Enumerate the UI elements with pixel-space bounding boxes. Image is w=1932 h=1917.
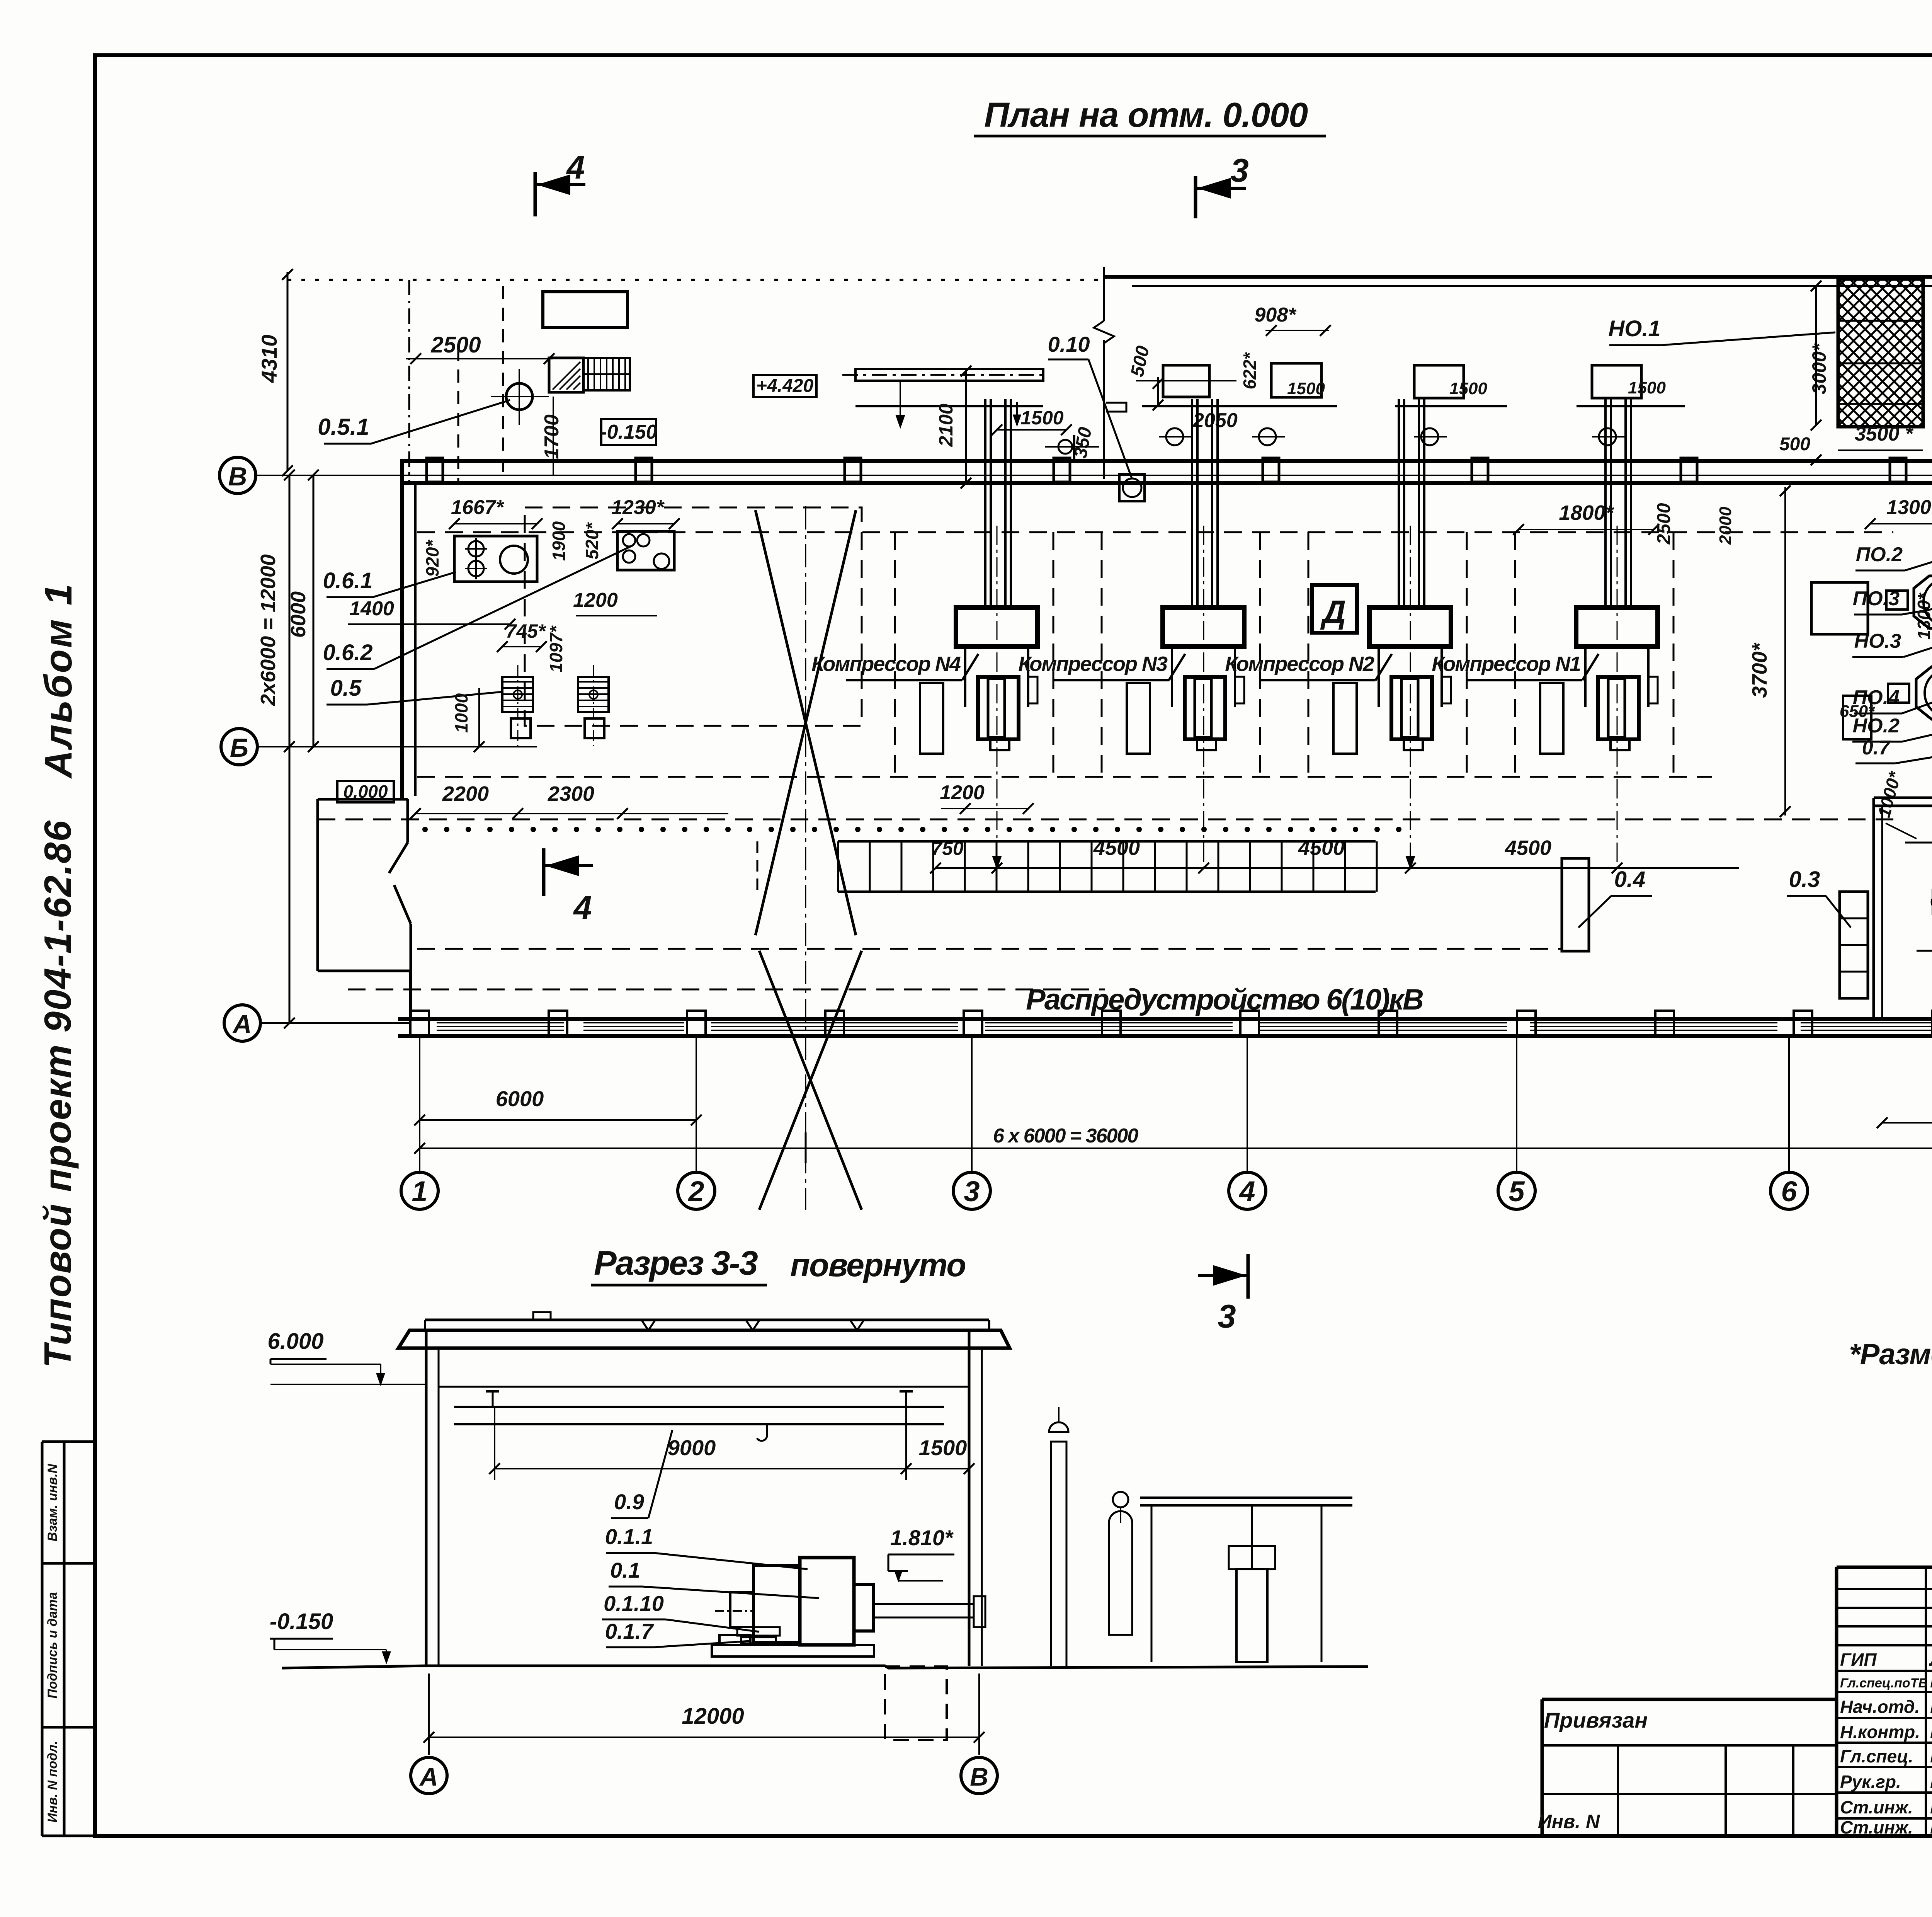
compressor unit N2: [1333, 399, 1451, 868]
dim 1900 vertical: [549, 521, 569, 561]
cooler NO.1 hatched: [1687, 279, 1932, 427]
svg-text:Гл.спец.поТБ: Гл.спец.поТБ: [1840, 1676, 1928, 1691]
svg-text:1500: 1500: [1020, 407, 1063, 429]
compressor unit N3: [1127, 399, 1244, 868]
axis line row A: [260, 1022, 410, 1024]
equipment 0.6.2 valves: [617, 531, 674, 570]
svg-text:Компрессор N2: Компрессор N2: [1225, 652, 1374, 676]
svg-text:Колупахин: Колупахин: [1930, 1670, 1932, 1692]
axis circle 6: [1770, 1036, 1808, 1209]
svg-text:6000: 6000: [496, 1086, 544, 1111]
svg-text:2300: 2300: [548, 782, 594, 805]
left margin stamp table: [42, 1442, 97, 1836]
label Компрессор N1: [1432, 652, 1599, 680]
svg-text:Новицкая: Новицкая: [1930, 1720, 1932, 1743]
dim 2000 vertical: [1716, 507, 1735, 545]
label Компрессор N4: [811, 652, 978, 680]
section 3-3 walls: [426, 1331, 982, 1666]
dashed bays around compressors: [318, 532, 1893, 819]
left margin label Typical project 904-1-62.86: [36, 820, 79, 1368]
svg-text:1900: 1900: [549, 521, 569, 561]
label PO.3: [1853, 587, 1932, 615]
vestibule box top-left: [543, 292, 628, 328]
switchgear cell row: [838, 841, 1377, 892]
plan lower-left annex: [318, 799, 411, 1019]
label 0.5: [327, 676, 502, 705]
svg-text:4: 4: [573, 890, 592, 926]
svg-text:1500: 1500: [1628, 378, 1666, 397]
toilet bowl: [1932, 890, 1932, 914]
section cut mark 3 bottom: [1198, 1254, 1248, 1335]
annex unit 2 (fan): [1136, 365, 1287, 445]
pinned box: [1538, 1708, 1837, 1836]
plan annex top wall (dotted part): [287, 279, 1105, 281]
svg-text:0.1.1: 0.1.1: [605, 1524, 653, 1549]
svg-text:Типовой проект 904-1-62.86: Типовой проект 904-1-62.86: [36, 820, 79, 1368]
svg-text:0.1: 0.1: [610, 1558, 640, 1582]
equipment 0.6.1 pumps: [454, 536, 537, 582]
axis line row B: [257, 746, 537, 747]
section 3-3 axis circle A: [411, 1757, 447, 1794]
svg-text:Ст.инж.: Ст.инж.: [1840, 1797, 1913, 1817]
label 0.6.1: [323, 568, 456, 597]
compressor unit N1: [1540, 399, 1658, 868]
plan annex top wall (solid part): [1105, 277, 1932, 286]
svg-text:2: 2: [687, 1175, 704, 1207]
svg-text:4500: 4500: [1298, 836, 1345, 860]
section cut mark 3 top: [1196, 152, 1249, 218]
left margin label Album 1: [37, 582, 80, 779]
svg-text:Ст.инж.: Ст.инж.: [1840, 1817, 1913, 1837]
dim 1097* vertical: [546, 625, 566, 672]
svg-text:3700*: 3700*: [1748, 642, 1771, 698]
note: dimensions for reference: [1849, 1338, 1932, 1371]
svg-text:0.5: 0.5: [330, 676, 362, 701]
section 3-3 labels 0.9 0.1.1 0.1 0.1.10 0.1.7: [602, 1430, 819, 1647]
dim 3700* vertical: [1748, 485, 1791, 817]
svg-text:4500: 4500: [1505, 836, 1551, 860]
dim 1000 vertical: [451, 688, 485, 752]
svg-text:3500 *: 3500 *: [1855, 423, 1914, 445]
svg-text:1500: 1500: [1449, 379, 1487, 398]
dim 1400: [348, 598, 515, 630]
boxed level +4.420: [753, 375, 816, 397]
partition details: [1886, 823, 1932, 951]
svg-text:В: В: [228, 462, 247, 491]
svg-text:745*: 745*: [506, 620, 546, 642]
svg-text:1300: 1300: [1886, 496, 1931, 519]
bottom dimension 6x6000=36000: [414, 1125, 1932, 1154]
svg-text:0.5.1: 0.5.1: [318, 414, 369, 440]
dim 2500: [406, 332, 554, 364]
svg-text:1667*: 1667*: [451, 496, 505, 519]
level -0.150: [270, 1609, 390, 1663]
section 3-3 ground line: [282, 1666, 1368, 1668]
section 3-3 level 6.000: [267, 1329, 425, 1384]
dim 350 vertical annex: [1070, 426, 1096, 460]
annex unit 3: [1225, 304, 1337, 445]
svg-text:Нач.отд.: Нач.отд.: [1840, 1697, 1920, 1717]
label Компрессор N3: [1018, 652, 1185, 680]
svg-text:*Размеры для справок.: *Размеры для справок.: [1849, 1338, 1932, 1371]
svg-text:1.810*: 1.810*: [890, 1525, 954, 1550]
svg-text:1230*: 1230*: [611, 496, 665, 519]
svg-text:9000: 9000: [668, 1435, 716, 1460]
svg-text:3000*: 3000*: [1808, 343, 1830, 394]
title Plan at elev. 0.000: [974, 96, 1326, 136]
label NO.3: [1852, 603, 1932, 657]
dashed hall lines lower: [348, 841, 1561, 1163]
svg-text:Привязан: Привязан: [1544, 1708, 1648, 1732]
section cut mark 4 bottom: [544, 848, 593, 926]
svg-text:5: 5: [1509, 1175, 1525, 1207]
signature table: [1837, 1567, 1932, 1838]
svg-text:0.4: 0.4: [1614, 867, 1646, 892]
bottom dimension 6000: [414, 1086, 702, 1125]
dim 2100 vertical: [935, 366, 971, 489]
section 3-3 roof: [398, 1312, 1010, 1348]
svg-text:4500: 4500: [1093, 836, 1140, 860]
label 0.5.1 with leader: [318, 400, 510, 444]
svg-text:0.1.7: 0.1.7: [605, 1619, 654, 1643]
svg-text:0.9: 0.9: [614, 1490, 644, 1514]
annex unit 4: [1395, 365, 1507, 445]
svg-text:1500: 1500: [1287, 379, 1325, 398]
svg-text:520*: 520*: [582, 522, 602, 560]
dim 1800*: [1513, 501, 1659, 535]
svg-text:Рук.гр.: Рук.гр.: [1840, 1772, 1901, 1792]
svg-text:А: А: [232, 1010, 252, 1039]
dim line 2200 2300: [410, 782, 728, 819]
svg-text:6: 6: [1781, 1175, 1797, 1207]
svg-text:0.6.1: 0.6.1: [323, 568, 373, 593]
svg-text:2500: 2500: [430, 332, 481, 358]
tank 650: [1840, 696, 1875, 739]
section 3-3 ceiling beam: [439, 1387, 969, 1441]
pump NO.3 hexagon: [1886, 557, 1932, 649]
svg-text:1: 1: [412, 1175, 427, 1207]
svg-text:А: А: [419, 1762, 438, 1791]
dim 1200: [573, 589, 657, 616]
section 3-3 axis circle V: [961, 1757, 997, 1794]
section 3-3 compressor: [712, 1558, 985, 1657]
svg-text:Д: Д: [1320, 594, 1346, 630]
annex unit 5: [1577, 365, 1685, 445]
dim 1500 annex 1: [992, 402, 1072, 435]
svg-text:6.000: 6.000: [267, 1329, 323, 1354]
dim 2x6000=12000 vertical: [257, 470, 295, 1028]
dim 4310 vertical: [257, 269, 293, 476]
floor drain circle 0.5.1: [491, 369, 549, 425]
svg-text:Коган: Коган: [1930, 1695, 1932, 1718]
axis circle 1: [401, 1036, 438, 1209]
svg-text:920*: 920*: [422, 540, 442, 577]
section cut mark 4 top: [535, 149, 585, 216]
plan annex left dashed wall: [409, 280, 503, 483]
foundation dashed: [885, 1667, 947, 1740]
dim row 1200 750 4500: [930, 781, 1739, 873]
svg-text:-0.150: -0.150: [600, 421, 657, 443]
svg-text:Шась: Шась: [1930, 1816, 1932, 1838]
svg-text:12000: 12000: [682, 1704, 744, 1729]
label 0.4 with equipment: [1562, 858, 1652, 951]
svg-text:Компрессор N3: Компрессор N3: [1018, 652, 1168, 676]
label PO.2: [1855, 543, 1932, 570]
wall row V: [400, 461, 1932, 483]
dim 500: [1777, 434, 1839, 465]
dim 745*: [497, 620, 547, 652]
svg-text:4310: 4310: [257, 335, 281, 383]
svg-text:-0.150: -0.150: [270, 1609, 333, 1634]
svg-text:2200: 2200: [442, 782, 489, 805]
svg-text:Инв. N: Инв. N: [1538, 1811, 1600, 1832]
section 3-3 dim 9000 1500: [489, 1407, 975, 1480]
dim 3500*: [1838, 423, 1923, 450]
svg-text:6 х 6000 = 36000: 6 х 6000 = 36000: [993, 1125, 1138, 1147]
svg-text:1200: 1200: [940, 781, 985, 804]
title Section 3-3 rotated: [591, 1244, 966, 1285]
svg-text:2050: 2050: [1192, 409, 1238, 432]
label NO.2: [1852, 707, 1932, 742]
svg-text:1500: 1500: [919, 1435, 967, 1460]
svg-text:0.000: 0.000: [343, 781, 388, 802]
level 1.810*: [888, 1525, 954, 1581]
sanitary rooms walls: [1874, 798, 1932, 1019]
svg-text:908*: 908*: [1255, 304, 1297, 326]
svg-text:1400: 1400: [349, 598, 394, 620]
svg-text:ПО.2: ПО.2: [1856, 543, 1903, 566]
axis circle 2: [678, 1036, 715, 1209]
svg-text:0.3: 0.3: [1789, 867, 1820, 892]
dim 6000 vertical left: [287, 470, 319, 752]
section 3-3 outdoor apparatus: [1049, 1407, 1352, 1666]
svg-text:Григорьян: Григорьян: [1930, 1770, 1932, 1793]
dim 2050: [1192, 409, 1238, 432]
dims 1300 1400 row: [1865, 496, 1932, 634]
dim 500 vertical annex: [1127, 344, 1163, 410]
svg-text:0.10: 0.10: [1048, 332, 1090, 356]
svg-text:Подпись и дата: Подпись и дата: [45, 1592, 60, 1699]
pump unit 0.5 left: [502, 665, 533, 746]
dotted boundary of switchgear area: [422, 827, 1401, 832]
label PO.4: [1853, 686, 1932, 713]
section 3-3 dim 12000: [423, 1674, 985, 1755]
svg-text:Инв. N подл.: Инв. N подл.: [45, 1741, 60, 1823]
svg-text:1200: 1200: [573, 589, 618, 611]
dim 520* vertical: [582, 522, 602, 560]
platform bracket: [1106, 403, 1126, 412]
svg-text:1000: 1000: [451, 693, 471, 733]
svg-text:Б: Б: [230, 733, 248, 763]
svg-text:Гл.спец.: Гл.спец.: [1840, 1746, 1913, 1766]
svg-text:622*: 622*: [1240, 352, 1260, 390]
svg-text:1700: 1700: [541, 414, 563, 459]
svg-text:3: 3: [964, 1175, 980, 1207]
tank 1300x2000: [1811, 582, 1932, 681]
svg-text:Преснов: Преснов: [1930, 1745, 1932, 1767]
axis circle 3: [953, 1036, 990, 1209]
bottom dimension 4000: [1877, 1093, 1932, 1128]
stair block with hatch: [549, 358, 630, 392]
svg-text:1097*: 1097*: [546, 625, 566, 672]
letter box D: [1312, 585, 1357, 633]
svg-text:4: 4: [566, 149, 585, 186]
label 0.6.2: [323, 545, 634, 669]
dim 2500 vertical: [1654, 503, 1674, 545]
break line and label 0.10: [1048, 267, 1145, 501]
wall row A with glazing: [398, 1011, 1932, 1036]
dashed outline around 0.6 equipment: [525, 507, 862, 726]
svg-text:повернуто: повернуто: [790, 1247, 966, 1283]
axis line row V: [256, 475, 1932, 476]
compressor unit N4: [920, 399, 1037, 868]
dim 920* vertical: [422, 540, 442, 577]
svg-text:Альбом 1: Альбом 1: [37, 582, 80, 779]
svg-text:Взам. инв.N: Взам. инв.N: [45, 1463, 60, 1541]
label 0.3 with equipment: [1787, 867, 1868, 998]
label switchgear 6(10)kV: [1026, 983, 1423, 1016]
axis circle 4: [1229, 1036, 1266, 1209]
pump NO.2 hexagon: [1888, 649, 1932, 740]
wall valve circle: [1045, 435, 1099, 459]
dim 1667*: [449, 496, 543, 529]
svg-text:2500: 2500: [1654, 503, 1674, 545]
svg-text:ГИП: ГИП: [1840, 1650, 1877, 1670]
svg-text:6000: 6000: [287, 591, 310, 638]
svg-text:Распредустройство 6(10)кВ: Распредустройство 6(10)кВ: [1026, 983, 1423, 1016]
svg-text:НО.1: НО.1: [1608, 316, 1660, 341]
svg-text:3: 3: [1230, 152, 1248, 189]
axis circle V: [219, 457, 256, 494]
dim 3000* vertical: [1808, 281, 1830, 431]
monorail beam in annex: [842, 369, 1047, 427]
dim 1230*: [611, 496, 680, 529]
tall cross brace: [755, 506, 862, 1210]
svg-text:4: 4: [1238, 1175, 1255, 1207]
column stubs on wall V: [427, 458, 1932, 482]
label NO.1 with leader: [1608, 316, 1835, 345]
label 0.7: [1855, 734, 1932, 763]
svg-text:2100: 2100: [935, 403, 957, 447]
dim 1000* slanted: [1874, 769, 1905, 820]
axis circle B: [221, 729, 257, 765]
label Компрессор N2: [1225, 652, 1392, 680]
svg-text:0.1.10: 0.1.10: [604, 1591, 664, 1616]
svg-text:500: 500: [1779, 434, 1810, 455]
svg-text:Компрессор N4: Компрессор N4: [811, 652, 961, 676]
svg-text:1800*: 1800*: [1559, 501, 1614, 524]
dim 1700 vertical: [541, 397, 563, 475]
plan left wall: [402, 461, 415, 799]
svg-text:Н.контр.: Н.контр.: [1840, 1722, 1920, 1742]
svg-text:650*: 650*: [1840, 702, 1875, 721]
pump unit 0.5 right: [578, 665, 609, 746]
axis circle A: [224, 1005, 260, 1041]
svg-text:План на отм. 0.000: План на отм. 0.000: [984, 96, 1308, 134]
svg-text:3: 3: [1218, 1298, 1236, 1335]
svg-text:Компрессор N1: Компрессор N1: [1432, 652, 1580, 676]
title block outline: [95, 1567, 1932, 1836]
svg-text:Воеводина: Воеводина: [1930, 1796, 1932, 1818]
boxed level 0.000: [337, 781, 394, 802]
svg-text:Разрез 3-3: Разрез 3-3: [594, 1244, 758, 1282]
svg-text:+4.420: +4.420: [756, 376, 813, 396]
svg-text:В: В: [970, 1762, 988, 1791]
svg-text:0.6.2: 0.6.2: [323, 640, 373, 665]
axis circle 5: [1498, 1036, 1535, 1209]
boxed level -0.150: [600, 419, 657, 445]
svg-text:2х6000 = 12000: 2х6000 = 12000: [257, 554, 280, 706]
svg-text:2000: 2000: [1716, 507, 1735, 545]
